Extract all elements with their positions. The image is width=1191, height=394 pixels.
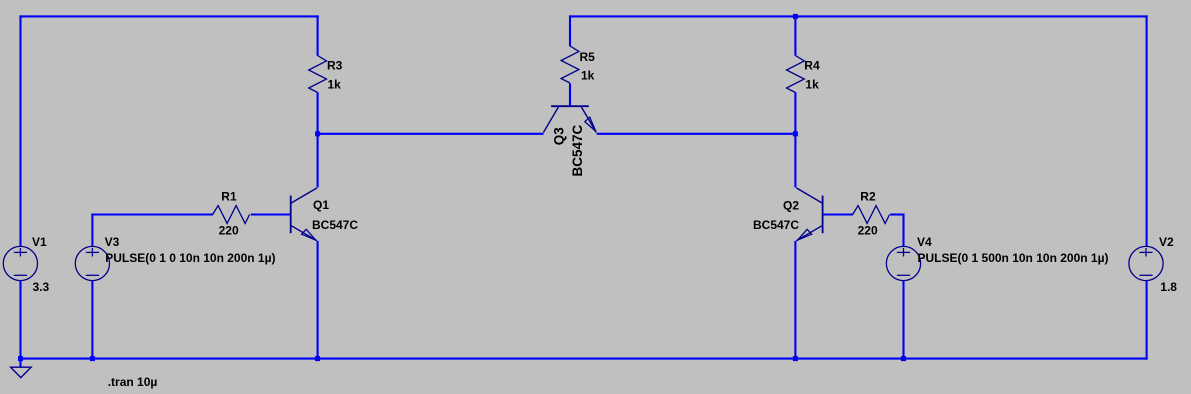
svg-text:R1: R1 (221, 189, 237, 203)
svg-text:1k: 1k (581, 69, 595, 83)
wire right rail upper (1146, 15, 1148, 246)
wire R5 top stub (569, 15, 571, 46)
ground symbol (11, 367, 32, 377)
svg-text:R5: R5 (580, 50, 596, 64)
svg-text:Q2: Q2 (783, 199, 799, 213)
wire Q2 collector vertical (794, 134, 796, 188)
wire V3 plus terminal vertical (91, 214, 93, 247)
voltage source V4 (886, 246, 920, 280)
svg-text:.tran 10µ: .tran 10µ (108, 375, 158, 389)
svg-text:R4: R4 (804, 59, 820, 73)
svg-text:R3: R3 (327, 59, 343, 73)
wire mid node to Q3 collector lead (317, 133, 544, 135)
wire V4 minus to ground rail (902, 281, 904, 360)
svg-text:BC547C: BC547C (570, 124, 585, 176)
svg-text:Q1: Q1 (313, 198, 329, 212)
svg-text:Q3: Q3 (552, 127, 567, 146)
svg-text:V3: V3 (105, 235, 120, 249)
svg-text:V1: V1 (32, 235, 47, 249)
voltage source V1 (3, 246, 37, 280)
wire ground rail (19, 358, 1147, 360)
svg-text:PULSE(0 1 0 10n 10n 200n 1µ): PULSE(0 1 0 10n 10n 200n 1µ) (105, 251, 275, 265)
wire V3 minus to ground rail (91, 281, 93, 360)
wire V4 plus terminal vertical (902, 214, 904, 247)
resistor R4 (787, 56, 805, 93)
wire left rail lower (19, 281, 21, 360)
wire R3 bottom stub (317, 92, 319, 135)
wire R1 right to Q1 base (251, 213, 291, 215)
junction ground rail at V3 (90, 356, 95, 361)
transistor Q3 (rotated) (543, 106, 596, 132)
junction ground rail at Q1 emitter (315, 356, 320, 361)
wire right rail lower (1146, 281, 1148, 360)
wire top-left horizontal rail (19, 15, 318, 17)
wire Q2 base to R2 left (823, 213, 853, 215)
wire Q3 emitter lead to R4 node (597, 133, 797, 135)
wire V3 top to R1 left (91, 213, 213, 215)
svg-text:PULSE(0 1 500n 10n 10n 200n 1µ: PULSE(0 1 500n 10n 10n 200n 1µ) (918, 251, 1109, 265)
svg-text:R2: R2 (860, 189, 876, 203)
wire left rail upper (19, 15, 21, 246)
svg-text:3.3: 3.3 (33, 280, 50, 294)
junction ground rail at V1 (18, 356, 23, 361)
transistor Q2 (mirrored) (796, 188, 822, 241)
svg-text:V2: V2 (1159, 235, 1174, 249)
resistor R5 (561, 46, 579, 83)
resistor R2 (horizontal) (853, 206, 890, 224)
resistor R1 (horizontal) (213, 206, 250, 224)
wire top-right horizontal rail (569, 15, 1148, 17)
wire Q1 emitter vertical to ground rail (317, 241, 319, 360)
svg-text:BC547C: BC547C (312, 218, 358, 232)
wire R5 bottom stub to Q3 base (569, 83, 571, 105)
svg-text:1k: 1k (805, 77, 819, 91)
svg-text:220: 220 (219, 224, 239, 238)
voltage source V2 (1129, 246, 1163, 280)
transistor Q1 (291, 188, 317, 241)
wire R4 top stub (794, 15, 796, 55)
junction node R3 / Q1 collector (315, 131, 320, 136)
junction node R4 / Q2 collector (793, 131, 798, 136)
svg-text:220: 220 (858, 224, 878, 238)
wire R2 right to V4 corner (890, 213, 904, 215)
wire R3 top stub (317, 15, 319, 55)
wire Q1 collector vertical (317, 134, 319, 188)
junction node top rail at R4 (793, 14, 798, 19)
wire R4 bottom stub (794, 92, 796, 135)
wire ground symbol stub (19, 358, 21, 367)
svg-text:BC547C: BC547C (753, 218, 799, 232)
junction ground rail at Q2 emitter (793, 356, 798, 361)
resistor R3 (309, 56, 327, 93)
svg-text:1k: 1k (328, 77, 342, 91)
svg-text:1.8: 1.8 (1160, 280, 1177, 294)
svg-text:V4: V4 (917, 235, 932, 249)
wire Q2 emitter vertical to ground rail (794, 241, 796, 359)
junction ground rail at V4 (901, 356, 906, 361)
voltage source V3 (75, 246, 109, 280)
